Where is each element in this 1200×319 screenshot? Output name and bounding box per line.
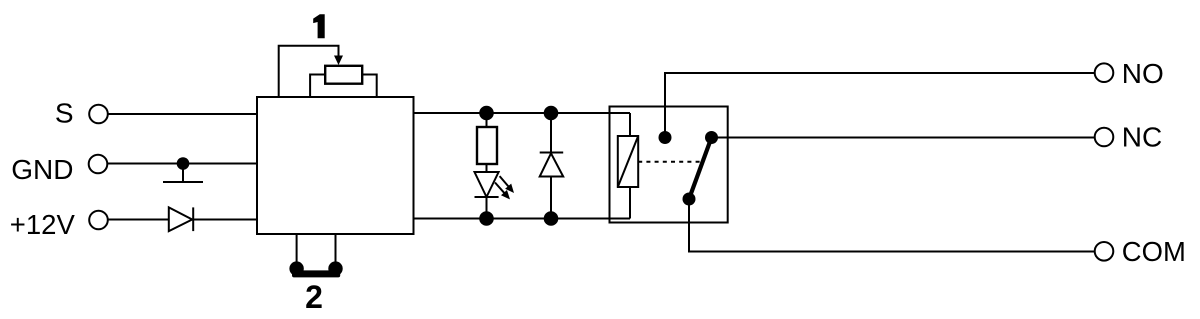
wire top rail	[414, 112, 631, 114]
diode D3 triangle	[540, 153, 564, 176]
LED emission arrow 2	[495, 183, 505, 194]
wire jumper right leg	[335, 234, 337, 269]
relay K1 box	[610, 107, 728, 223]
terminal COM	[1095, 242, 1114, 261]
svg-text:2: 2	[305, 279, 323, 315]
dashed actuation link	[638, 161, 703, 163]
node: LED branch bottom junction	[479, 211, 494, 226]
wire diode branch top	[550, 113, 552, 153]
wire bottom rail	[414, 218, 631, 220]
wire GND to module	[107, 163, 257, 165]
wire pot wiper loop	[279, 46, 339, 97]
wire pot left terminal	[310, 75, 325, 98]
wire NC	[712, 137, 1095, 139]
node: diode branch top junction	[544, 106, 559, 121]
wire NO	[665, 73, 1095, 138]
module box U1	[257, 97, 414, 234]
wire diode branch bottom	[550, 177, 552, 219]
wire S to module	[108, 113, 257, 115]
svg-text:NC: NC	[1122, 121, 1162, 152]
jumper link 2	[289, 261, 303, 275]
label 1	[313, 14, 325, 38]
terminal S	[89, 105, 108, 124]
potentiometer R2 body	[325, 66, 362, 84]
terminal NC	[1095, 128, 1114, 147]
terminal NO	[1095, 63, 1114, 82]
svg-text:COM: COM	[1122, 236, 1186, 267]
svg-text:NO: NO	[1122, 58, 1164, 89]
LED D2 triangle	[475, 172, 499, 197]
LED cathode bar	[475, 196, 499, 198]
wire pot right terminal	[362, 75, 377, 98]
svg-text:+12V: +12V	[10, 209, 75, 240]
svg-text:GND: GND	[11, 154, 73, 185]
contact COM dot	[683, 193, 696, 206]
node: LED branch top junction	[479, 106, 494, 121]
wire resistor to LED	[486, 164, 488, 172]
wire diode to module	[193, 219, 257, 221]
wire coil top stub	[629, 113, 631, 136]
diode D3 cathode bar	[540, 152, 564, 154]
resistor R1	[477, 127, 497, 164]
switch arm COM-NC	[689, 138, 712, 200]
terminal GND	[89, 155, 108, 174]
wiper arrowhead	[334, 56, 343, 66]
ground junction dot	[177, 157, 190, 170]
wire coil bottom stub	[629, 187, 631, 219]
relay coil	[618, 136, 638, 187]
ground symbol	[182, 164, 184, 183]
svg-text:S: S	[55, 98, 74, 129]
diode D1 (series protection)	[169, 207, 192, 231]
wire +12V to diode	[108, 219, 169, 221]
wire COM	[689, 199, 1095, 252]
wire LED to bottom rail	[486, 197, 488, 219]
LED emission arrow 1	[500, 176, 509, 187]
contact NO dot	[659, 131, 672, 144]
wire jumper left leg	[296, 234, 298, 269]
terminal +12V	[89, 211, 108, 230]
contact NC dot	[705, 131, 718, 144]
wire LED branch	[486, 113, 488, 127]
node: diode branch bottom junction	[544, 211, 559, 226]
